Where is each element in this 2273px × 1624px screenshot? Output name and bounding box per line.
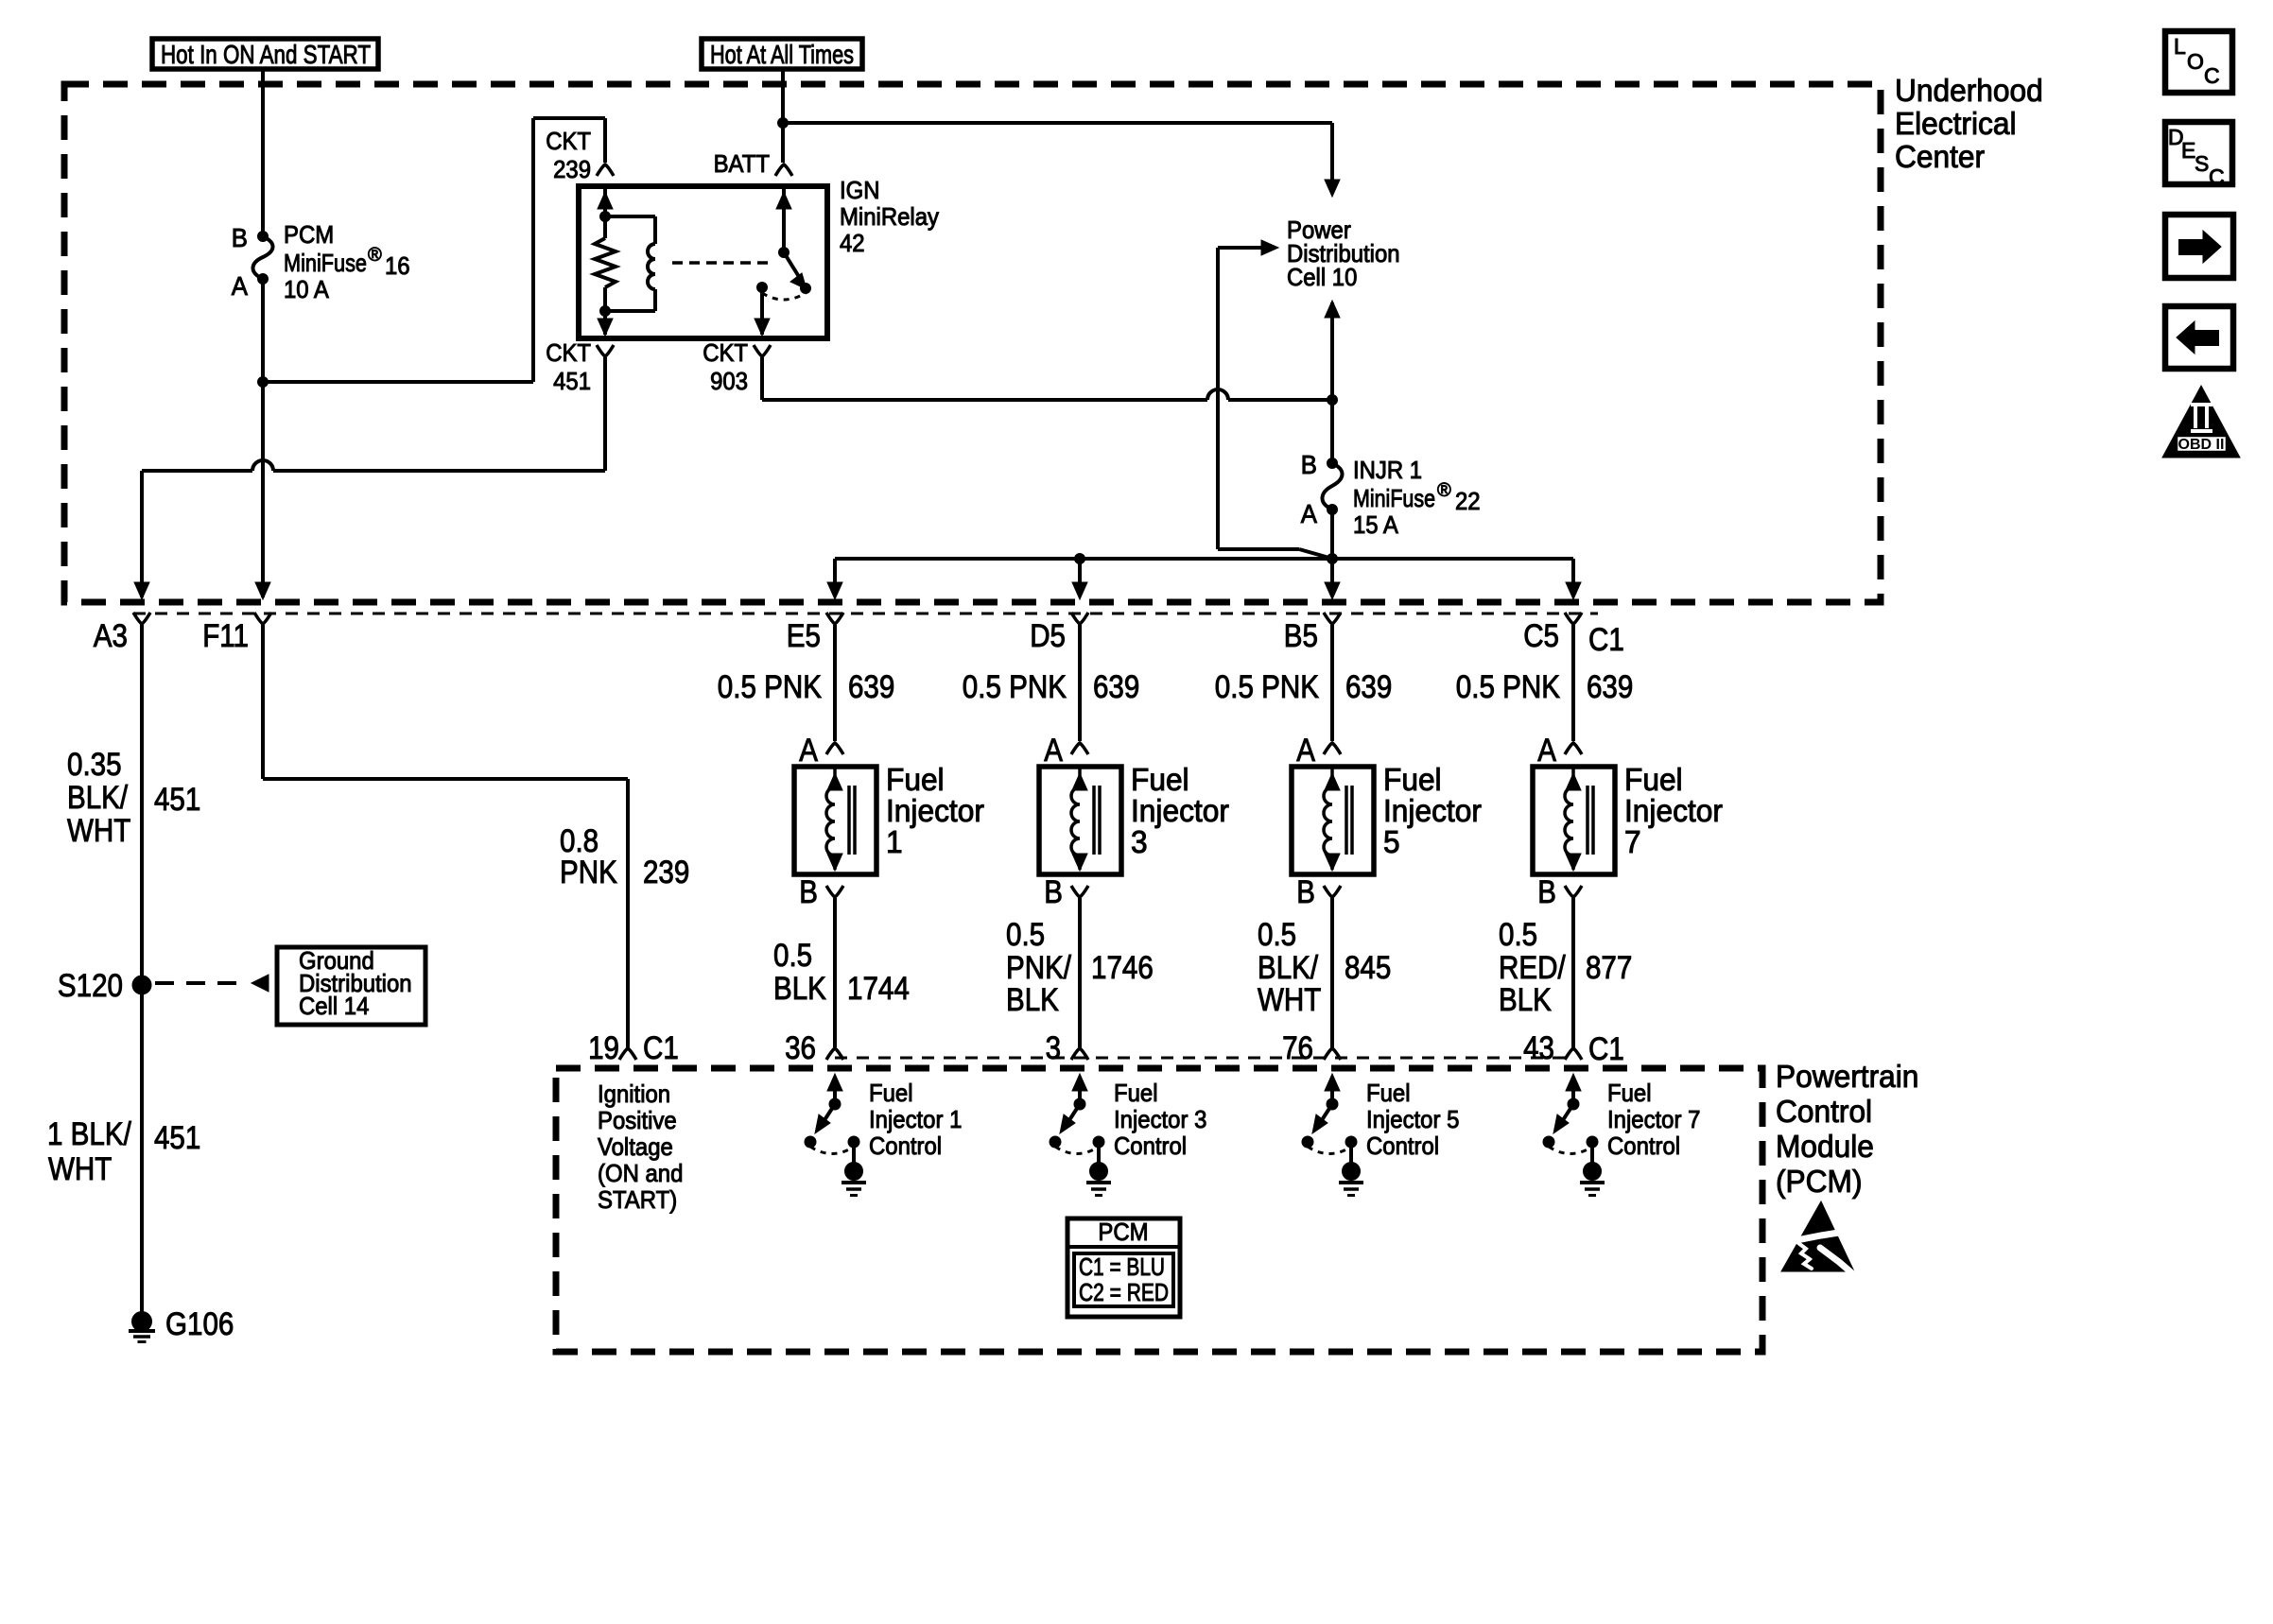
svg-text:1746: 1746 — [1091, 950, 1154, 986]
wire: BATT junction right to Power Distribution drop — [783, 123, 1340, 197]
connector: CKT 451 below relay — [597, 345, 614, 356]
svg-text:Center: Center — [1895, 139, 1985, 174]
circuit number label 845 — [1345, 950, 1391, 986]
connector label C1 (top row) — [1588, 622, 1624, 658]
svg-text:INJR 1: INJR 1 — [1353, 456, 1422, 484]
svg-text:G106: G106 — [165, 1306, 234, 1342]
relay switch travel dashed arc — [762, 293, 806, 300]
driver label Injector 1 control — [869, 1079, 962, 1160]
PCM pin 43 connector — [1565, 1048, 1582, 1060]
PCM connector color table — [1067, 1218, 1180, 1317]
svg-text:PNK/: PNK/ — [1006, 950, 1071, 986]
svg-text:0.5: 0.5 — [773, 938, 812, 974]
relay suppression resistor — [595, 216, 616, 311]
pin label A (injector 5) — [1296, 733, 1315, 769]
connector label D5 — [1030, 618, 1066, 654]
driver label Injector 5 control — [1366, 1079, 1459, 1160]
wire label 0.5 PNK (injector 1 feed) — [718, 669, 822, 705]
LOC reference icon — [2165, 31, 2232, 93]
svg-text:A3: A3 — [94, 618, 128, 654]
svg-text:A: A — [232, 271, 248, 301]
pin label B (injector 5) — [1296, 874, 1315, 910]
wire: injector 1 pin B down to PCM pin — [833, 898, 837, 1047]
PCM pin 19 connector — [619, 1048, 636, 1060]
circuit number label 639 (injector 3 feed) — [1093, 669, 1139, 705]
svg-text:BLK: BLK — [1006, 982, 1059, 1018]
svg-text:Powertrain: Powertrain — [1776, 1059, 1918, 1094]
svg-text:42: 42 — [840, 229, 865, 257]
circuit number label 639 (injector 7 feed) — [1587, 669, 1633, 705]
svg-text:Fuel: Fuel — [1383, 762, 1442, 797]
svg-text:845: 845 — [1345, 950, 1391, 986]
svg-text:B: B — [799, 874, 818, 910]
svg-text:Hot In ON And START: Hot In ON And START — [161, 40, 371, 69]
PCM pin 36 connector — [826, 1048, 843, 1060]
svg-text:CKT: CKT — [546, 127, 591, 155]
svg-text:A: A — [1044, 733, 1063, 769]
bus junction at D5 drop — [1075, 554, 1085, 564]
connector: injector 3 pin B — [1071, 886, 1088, 897]
circuit number label 639 (injector 1 feed) — [848, 669, 894, 705]
ESD sensitivity symbol — [1781, 1201, 1854, 1273]
svg-text:B: B — [1296, 874, 1315, 910]
PCM pin 3 connector — [1071, 1048, 1088, 1060]
svg-text:PNK: PNK — [560, 855, 617, 890]
svg-text:Electrical: Electrical — [1895, 106, 2017, 141]
svg-text:CKT: CKT — [703, 338, 748, 367]
wire label 1 BLK/WHT — [47, 1116, 131, 1187]
Powertrain Control Module (PCM) label — [1776, 1059, 1918, 1199]
fuse pin label B — [232, 223, 248, 252]
fuse pin label B — [1301, 450, 1317, 479]
driver label Injector 3 control — [1114, 1079, 1206, 1160]
svg-text:BLK/: BLK/ — [1258, 950, 1319, 986]
svg-text:(PCM): (PCM) — [1776, 1164, 1863, 1199]
injector feed bus — [835, 557, 1573, 561]
relay output contact with down arrow — [755, 283, 770, 337]
wire label 0.35 BLK/WHT — [67, 747, 130, 849]
svg-text:IGN: IGN — [840, 176, 880, 204]
relay name label IGN MiniRelay 42 — [840, 176, 939, 257]
svg-text:639: 639 — [1093, 669, 1139, 705]
svg-text:B: B — [1044, 874, 1063, 910]
wire: fuse A down to junction, then on to F11 border crossing — [261, 279, 265, 597]
svg-text:19: 19 — [588, 1030, 619, 1066]
relay coil bottom junction with down arrow — [598, 306, 613, 337]
PCM pin 76 connector — [1324, 1048, 1341, 1060]
svg-text:10 A: 10 A — [284, 275, 329, 303]
wire: Hot In ON And START down to fuse B — [261, 69, 265, 234]
fuel injector 3 (solenoid valve) — [1039, 767, 1121, 874]
svg-text:451: 451 — [154, 782, 200, 818]
fuse pin label A — [1301, 499, 1317, 528]
svg-text:Injector: Injector — [886, 793, 984, 828]
svg-text:Cell 10: Cell 10 — [1287, 263, 1357, 291]
svg-text:3: 3 — [1131, 824, 1148, 859]
svg-text:Ignition: Ignition — [598, 1080, 670, 1108]
relay switch arm with arrowhead — [784, 252, 811, 294]
svg-text:877: 877 — [1586, 950, 1632, 986]
svg-text:B: B — [232, 223, 248, 252]
svg-text:Injector: Injector — [1624, 793, 1723, 828]
svg-text:Fuel: Fuel — [1607, 1079, 1652, 1107]
wire: bus drop into Underhood connector at x=1409 — [1325, 559, 1340, 599]
svg-text:Injector 1: Injector 1 — [869, 1105, 962, 1133]
relay IGN MiniRelay 42 box — [579, 186, 827, 338]
svg-text:239: 239 — [553, 155, 591, 183]
connector: injector 7 pin B — [1565, 886, 1582, 897]
connector F11 — [254, 613, 271, 624]
Power Distribution Cell 10 label — [1287, 216, 1400, 291]
connector label C1 (pin 19) — [643, 1030, 679, 1066]
svg-text:Cell 14: Cell 14 — [299, 992, 369, 1020]
svg-text:Control: Control — [1366, 1132, 1439, 1160]
fuse pin label A — [232, 271, 248, 301]
svg-text:MiniFuse: MiniFuse — [284, 249, 367, 277]
svg-text:Injector: Injector — [1131, 793, 1229, 828]
wire label 0.5 PNK (injector 5 feed) — [1215, 669, 1319, 705]
svg-text:C1: C1 — [1588, 622, 1624, 658]
wire: CKT 451 down, left (hop over F11 wire) to A3 drop — [142, 357, 605, 597]
svg-text:MiniFuse: MiniFuse — [1353, 484, 1435, 512]
svg-text:76: 76 — [1282, 1030, 1313, 1066]
svg-text:43: 43 — [1523, 1030, 1554, 1066]
svg-text:C: C — [2204, 63, 2220, 88]
svg-text:Voltage: Voltage — [598, 1132, 673, 1161]
svg-text:1 BLK/: 1 BLK/ — [47, 1116, 131, 1152]
svg-text:Fuel: Fuel — [1624, 762, 1683, 797]
Underhood connector strip (thin dashed) — [133, 613, 1598, 615]
svg-text:WHT: WHT — [67, 813, 130, 849]
bus junction at B5 drop — [1327, 554, 1338, 564]
connector: CKT 903 below relay — [754, 345, 771, 356]
svg-text:A: A — [1537, 733, 1556, 769]
svg-text:36: 36 — [785, 1030, 816, 1066]
pin label B (injector 3) — [1044, 874, 1063, 910]
wire: bus drop into Underhood connector at x=1142 — [1072, 559, 1087, 599]
fuse PCM MiniFuse 16 (B top, A bottom) — [252, 232, 272, 285]
connector: injector 5 pin B — [1324, 886, 1341, 897]
svg-text:A: A — [1301, 499, 1317, 528]
svg-text:Positive: Positive — [598, 1106, 677, 1134]
relay switch: BATT pin down to pivot — [776, 189, 791, 258]
svg-text:C: C — [2209, 164, 2225, 189]
svg-text:Control: Control — [869, 1132, 942, 1160]
circuit number label 877 — [1586, 950, 1632, 986]
connector B5 — [1324, 613, 1341, 624]
svg-text:Fuel: Fuel — [886, 762, 945, 797]
circuit number label 451 (lower) — [154, 1120, 200, 1156]
pin label B (injector 1) — [799, 874, 818, 910]
pin label A (injector 1) — [799, 733, 818, 769]
wire 639 PNK: connector to Fuel Injector 1 pin A — [833, 625, 837, 741]
svg-text:Injector 5: Injector 5 — [1366, 1105, 1459, 1133]
OBD II symbol — [2162, 386, 2240, 458]
svg-text:MiniRelay: MiniRelay — [840, 202, 939, 231]
svg-text:0.5: 0.5 — [1258, 917, 1296, 953]
svg-text:O: O — [2187, 49, 2204, 74]
svg-text:3: 3 — [1046, 1030, 1061, 1066]
svg-text:A: A — [1296, 733, 1315, 769]
svg-text:B5: B5 — [1284, 618, 1318, 654]
svg-text:Fuel: Fuel — [869, 1079, 913, 1107]
svg-text:S: S — [2195, 151, 2209, 176]
svg-text:START): START) — [598, 1185, 677, 1214]
fuse INJR 1 MiniFuse 22 (B top, A bottom) — [1322, 458, 1342, 515]
wire label 0.5 PNK (injector 7 feed) — [1456, 669, 1560, 705]
driver label Injector 7 control — [1607, 1079, 1700, 1160]
driver ground (Injector 3) — [1086, 1142, 1111, 1196]
svg-text:Fuel: Fuel — [1131, 762, 1189, 797]
DESC reference icon — [2165, 122, 2232, 189]
wire label 0.5/PNK//BLK (injector 3 control) — [1006, 917, 1071, 1018]
svg-text:15 A: 15 A — [1353, 510, 1398, 539]
svg-text:1: 1 — [886, 824, 903, 859]
svg-text:BLK: BLK — [773, 971, 826, 1007]
svg-text:0.5: 0.5 — [1499, 917, 1537, 953]
wire 451 BLK/WHT: A3 down to G106 — [140, 625, 144, 1314]
svg-text:RED/: RED/ — [1499, 950, 1566, 986]
wire: CKT 903 down then right (hop over cell-10 riser) to INJR1 fuse — [762, 357, 1332, 400]
splice label S120 — [58, 968, 123, 1004]
svg-text:D5: D5 — [1030, 618, 1066, 654]
wire: Hot At All Times down to BATT — [781, 69, 785, 163]
power feed label "Hot In ON And START" — [152, 39, 378, 69]
fuse F22 value label: INJR 1 MiniFuse(R) 22, 15 A — [1353, 456, 1481, 539]
wire: junction right then up to CKT 239 (relay coil feed) — [263, 118, 605, 382]
svg-text:Control: Control — [1776, 1094, 1872, 1129]
connector D5 — [1071, 613, 1088, 624]
connector: injector 7 pin A — [1565, 743, 1582, 754]
svg-text:7: 7 — [1624, 824, 1641, 859]
pin number label 36 — [785, 1030, 816, 1066]
svg-text:C2 = RED: C2 = RED — [1079, 1278, 1169, 1306]
svg-text:Control: Control — [1114, 1132, 1187, 1160]
relay actuation dashed link — [672, 261, 773, 265]
svg-text:451: 451 — [553, 367, 591, 395]
pin label A (injector 7) — [1537, 733, 1556, 769]
svg-text:E5: E5 — [787, 618, 821, 654]
svg-text:®: ® — [368, 245, 382, 266]
junction on BATT feed — [778, 118, 789, 129]
driver ground (Injector 5) — [1339, 1142, 1363, 1196]
back arrow icon — [2165, 306, 2233, 369]
forward arrow icon — [2165, 215, 2233, 278]
wire label 0.8 PNK — [560, 823, 617, 890]
svg-text:903: 903 — [710, 367, 748, 395]
fuel injector 1 (solenoid valve) — [794, 767, 876, 874]
svg-text:WHT: WHT — [48, 1151, 112, 1187]
connector label C5 — [1523, 618, 1559, 654]
svg-text:OBD II: OBD II — [2178, 437, 2225, 453]
svg-text:E: E — [2181, 138, 2195, 163]
svg-text:BLK/: BLK/ — [67, 780, 129, 816]
svg-text:B: B — [1301, 450, 1317, 479]
svg-text:Module: Module — [1776, 1129, 1874, 1164]
wire 239 PNK: F11 down, right, down to PCM pin 19 — [263, 625, 628, 1047]
wire: injector 7 pin B down to PCM pin — [1571, 898, 1575, 1047]
pin label B (injector 7) — [1537, 874, 1556, 910]
junction at fuse output — [258, 377, 269, 388]
CKT 903 label — [703, 338, 748, 395]
wire: injector 5 pin B down to PCM pin — [1330, 898, 1334, 1047]
svg-text:(ON and: (ON and — [598, 1159, 683, 1187]
svg-text:5: 5 — [1383, 824, 1400, 859]
svg-text:639: 639 — [1345, 669, 1392, 705]
svg-text:0.5 PNK: 0.5 PNK — [718, 669, 822, 705]
wire: bus drop into Underhood connector at x=1664 — [1566, 559, 1581, 599]
svg-text:C5: C5 — [1523, 618, 1559, 654]
relay coil winding — [605, 216, 655, 311]
fuel injector 3 name label — [1131, 762, 1229, 859]
svg-text:A: A — [799, 733, 818, 769]
fuel injector 1 name label — [886, 762, 984, 859]
PCM input description: Ignition Positive Voltage (ON and START) — [598, 1080, 683, 1214]
PCM connector strip (thin dashed) — [835, 1057, 1573, 1060]
svg-text:BATT: BATT — [714, 149, 770, 178]
circuit number label 239 — [643, 855, 689, 890]
driver ground (Injector 1) — [842, 1142, 866, 1196]
connector: BATT into relay — [775, 164, 792, 176]
svg-text:Injector 7: Injector 7 — [1607, 1105, 1700, 1133]
svg-text:S120: S120 — [58, 968, 123, 1004]
driver ground (Injector 7) — [1580, 1142, 1605, 1196]
pin number label 3 — [1046, 1030, 1061, 1066]
Underhood Electrical Center label — [1895, 73, 2043, 174]
connector E5 — [826, 613, 843, 624]
wire: F11 drop arrow — [255, 582, 270, 599]
svg-text:0.5 PNK: 0.5 PNK — [1456, 669, 1560, 705]
power feed label "Hot At All Times" — [702, 39, 862, 69]
driver transistor switch (Injector 1 control) — [805, 1074, 859, 1154]
svg-text:451: 451 — [154, 1120, 200, 1156]
junction above INJR1 fuse — [1327, 395, 1338, 406]
wire: bus drop into Underhood connector at x=883 — [827, 559, 842, 599]
pin number label 43 — [1523, 1030, 1554, 1066]
pin number label 19 — [588, 1030, 619, 1066]
driver transistor switch (Injector 3 control) — [1050, 1074, 1104, 1154]
pin number label 76 — [1282, 1030, 1313, 1066]
svg-text:639: 639 — [848, 669, 894, 705]
svg-text:C1 = BLU: C1 = BLU — [1079, 1253, 1165, 1281]
wire: riser with up arrow to Power Distribution Cell 10 — [1325, 301, 1340, 400]
svg-text:B: B — [1537, 874, 1556, 910]
Underhood Electrical Center enclosure (dashed) — [64, 84, 1881, 602]
svg-text:C1: C1 — [643, 1030, 679, 1066]
connector label C1 (pin 43) — [1588, 1031, 1624, 1067]
connector: injector 1 pin B — [826, 886, 843, 897]
svg-text:Control: Control — [1607, 1132, 1680, 1160]
splice S120 — [132, 976, 151, 994]
connector: injector 1 pin A — [826, 743, 843, 754]
wire: fuse A down to injector feed bus — [1330, 510, 1334, 559]
svg-text:C1: C1 — [1588, 1031, 1624, 1067]
ground label G106 — [165, 1306, 234, 1342]
wire 639 PNK: connector to Fuel Injector 7 pin A — [1571, 625, 1575, 741]
svg-text:CKT: CKT — [546, 338, 591, 367]
svg-text:Underhood: Underhood — [1895, 73, 2043, 108]
fuse F16 value label: PCM MiniFuse(R) 16, 10 A — [284, 220, 410, 303]
wire: injector 3 pin B down to PCM pin — [1078, 898, 1082, 1047]
svg-text:Hot At All Times: Hot At All Times — [710, 40, 854, 69]
svg-text:0.5 PNK: 0.5 PNK — [963, 669, 1067, 705]
fuel injector 7 name label — [1624, 762, 1723, 859]
svg-text:WHT: WHT — [1258, 982, 1321, 1018]
fuel injector 7 (solenoid valve) — [1533, 767, 1615, 874]
svg-text:F11: F11 — [202, 618, 249, 654]
circuit number label 639 (injector 5 feed) — [1345, 669, 1392, 705]
wire 639 PNK: connector to Fuel Injector 5 pin A — [1330, 625, 1334, 741]
connector label F11 — [202, 618, 249, 654]
connector: injector 3 pin A — [1071, 743, 1088, 754]
svg-text:239: 239 — [643, 855, 689, 890]
svg-text:PCM: PCM — [1098, 1218, 1148, 1246]
circuit number label 1744 — [847, 971, 910, 1007]
svg-text:®: ® — [1437, 480, 1451, 501]
wire: A3 drop arrow — [134, 582, 149, 599]
svg-text:Injector 3: Injector 3 — [1114, 1105, 1206, 1133]
connector: injector 5 pin A — [1324, 743, 1341, 754]
BATT pin label — [714, 149, 770, 178]
connector label B5 — [1284, 618, 1318, 654]
wire label 0.5/BLK//WHT (injector 5 control) — [1258, 917, 1321, 1018]
connector A3 — [133, 613, 150, 624]
connector label A3 — [94, 618, 128, 654]
svg-text:1744: 1744 — [847, 971, 910, 1007]
CKT 239 label — [546, 127, 591, 183]
circuit number label 451 (upper) — [154, 782, 200, 818]
wire: Cell-10 return branch with right arrow — [1218, 240, 1332, 559]
wire: junction down to INJR1 fuse B — [1330, 400, 1334, 463]
dashed reference: S120 to Ground Distribution Cell 14 — [155, 975, 269, 992]
connector C5 — [1565, 613, 1582, 624]
svg-text:16: 16 — [385, 251, 410, 280]
svg-text:Fuel: Fuel — [1366, 1079, 1411, 1107]
Powertrain Control Module enclosure (dashed) — [556, 1068, 1762, 1352]
svg-text:0.35: 0.35 — [67, 747, 122, 783]
CKT 451 label — [546, 338, 591, 395]
svg-text:0.5 PNK: 0.5 PNK — [1215, 669, 1319, 705]
svg-text:0.5: 0.5 — [1006, 917, 1045, 953]
driver transistor switch (Injector 5 control) — [1302, 1074, 1357, 1154]
connector: CKT 239 into relay — [597, 164, 614, 176]
wire label 0.5/RED//BLK (injector 7 control) — [1499, 917, 1566, 1018]
svg-text:Fuel: Fuel — [1114, 1079, 1158, 1107]
ground G106 — [129, 1312, 155, 1342]
svg-text:PCM: PCM — [284, 220, 334, 249]
svg-text:639: 639 — [1587, 669, 1633, 705]
fuel injector 5 name label — [1383, 762, 1482, 859]
connector label E5 — [787, 618, 821, 654]
svg-text:Injector: Injector — [1383, 793, 1482, 828]
fuel injector 5 (solenoid valve) — [1292, 767, 1374, 874]
wire label 0.5 PNK (injector 3 feed) — [963, 669, 1067, 705]
driver transistor switch (Injector 7 control) — [1543, 1074, 1598, 1154]
svg-text:22: 22 — [1455, 487, 1481, 515]
wire 639 PNK: connector to Fuel Injector 3 pin A — [1078, 625, 1082, 741]
pin label A (injector 3) — [1044, 733, 1063, 769]
circuit number label 1746 — [1091, 950, 1154, 986]
wire label 0.5/BLK (injector 1 control) — [773, 938, 826, 1007]
relay coil pin (left) with up arrow — [598, 189, 613, 222]
svg-text:BLK: BLK — [1499, 982, 1552, 1018]
Ground Distribution Cell 14 reference box — [277, 946, 425, 1025]
svg-text:L: L — [2174, 34, 2186, 59]
